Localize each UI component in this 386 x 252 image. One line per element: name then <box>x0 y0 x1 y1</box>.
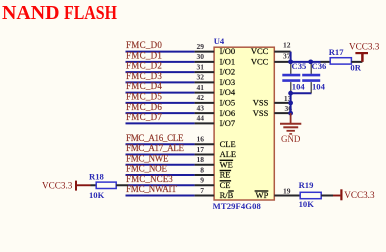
svg-text:10K: 10K <box>89 190 105 200</box>
svg-text:37: 37 <box>283 51 291 60</box>
svg-text:C35: C35 <box>292 61 307 71</box>
svg-text:FMC_D3: FMC_D3 <box>126 71 162 81</box>
svg-text:I/O4: I/O4 <box>220 87 236 97</box>
svg-text:8: 8 <box>200 165 204 174</box>
svg-text:VCC: VCC <box>251 57 269 67</box>
svg-text:GND: GND <box>281 134 301 144</box>
svg-text:FLASH: FLASH <box>64 2 117 24</box>
svg-text:9: 9 <box>200 176 204 185</box>
svg-text:FMC_NOE: FMC_NOE <box>126 164 168 174</box>
svg-text:I/O5: I/O5 <box>220 98 236 108</box>
svg-text:I/O7: I/O7 <box>220 118 236 128</box>
svg-text:43: 43 <box>197 104 205 113</box>
svg-text:FMC_D1: FMC_D1 <box>126 51 162 61</box>
svg-text:VCC: VCC <box>251 46 269 56</box>
svg-text:FMC_D2: FMC_D2 <box>126 61 162 71</box>
svg-text:NAND: NAND <box>2 2 60 24</box>
svg-text:FMC_A16_CLE: FMC_A16_CLE <box>126 133 184 143</box>
svg-text:VCC3.3: VCC3.3 <box>349 42 380 52</box>
svg-text:41: 41 <box>197 83 205 92</box>
svg-text:VSS: VSS <box>253 108 269 118</box>
svg-text:10K: 10K <box>299 199 315 209</box>
svg-text:I/O6: I/O6 <box>220 108 236 118</box>
svg-text:FMC_NCE3: FMC_NCE3 <box>126 174 173 184</box>
svg-text:17: 17 <box>197 145 205 154</box>
svg-text:19: 19 <box>283 186 291 195</box>
svg-text:16: 16 <box>197 135 205 144</box>
svg-text:29: 29 <box>197 42 205 51</box>
svg-text:44: 44 <box>197 114 205 123</box>
svg-text:CLE: CLE <box>220 139 236 149</box>
svg-text:104: 104 <box>312 82 326 92</box>
svg-text:FMC_D4: FMC_D4 <box>126 81 162 91</box>
svg-text:I/O0: I/O0 <box>220 46 236 56</box>
svg-text:12: 12 <box>283 40 291 49</box>
svg-text:R18: R18 <box>89 172 105 182</box>
svg-text:0R: 0R <box>350 62 361 72</box>
svg-text:R19: R19 <box>299 180 314 190</box>
svg-text:U4: U4 <box>214 36 225 46</box>
svg-text:FMC_D0: FMC_D0 <box>126 40 162 50</box>
svg-text:VCC3.3: VCC3.3 <box>42 180 73 190</box>
svg-text:FMC_D6: FMC_D6 <box>126 102 162 112</box>
svg-text:MT29F4G08: MT29F4G08 <box>213 201 262 211</box>
svg-text:18: 18 <box>197 155 205 164</box>
svg-text:VCC3.3: VCC3.3 <box>344 190 375 200</box>
svg-text:FMC_A17_ALE: FMC_A17_ALE <box>126 143 185 153</box>
svg-text:R17: R17 <box>329 47 345 57</box>
svg-text:42: 42 <box>197 93 205 102</box>
svg-text:FMC_NWE: FMC_NWE <box>126 153 169 163</box>
svg-text:104: 104 <box>292 82 306 92</box>
svg-text:30: 30 <box>197 52 205 61</box>
svg-text:I/O3: I/O3 <box>220 77 236 87</box>
svg-text:FMC_D5: FMC_D5 <box>126 92 162 102</box>
svg-text:7: 7 <box>200 186 204 195</box>
svg-text:I/O2: I/O2 <box>220 67 236 77</box>
svg-text:31: 31 <box>197 62 205 71</box>
svg-text:FMC_D7: FMC_D7 <box>126 112 162 122</box>
svg-text:32: 32 <box>197 73 205 82</box>
svg-text:FMC_NWAIT: FMC_NWAIT <box>126 184 177 194</box>
svg-text:ALE: ALE <box>220 149 237 159</box>
svg-text:I/O1: I/O1 <box>220 57 236 67</box>
svg-text:VSS: VSS <box>253 98 269 108</box>
